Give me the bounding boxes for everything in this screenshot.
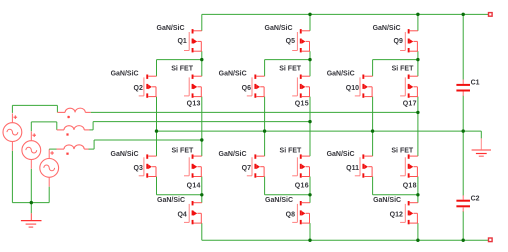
svg-text:GaN/SiC: GaN/SiC: [219, 151, 247, 158]
wire leg3 inner upper stub: [417, 60, 419, 77]
junction upper node: [416, 58, 419, 61]
transistor Q12: [400, 201, 418, 224]
transistor Q7: [247, 154, 265, 177]
wire leg3 top drop: [417, 14, 419, 30]
wire V1 up: [11, 105, 13, 113]
svg-text:Q6: Q6: [242, 85, 251, 92]
svg-text:Q12: Q12: [390, 212, 403, 219]
wire top DC+ bus: [202, 13, 488, 15]
wire L2 drop: [56, 122, 58, 130]
svg-text:Q11: Q11: [346, 165, 359, 172]
svg-text:Q2: Q2: [134, 85, 143, 92]
svg-text:Q18: Q18: [403, 182, 417, 189]
svg-text:Si FET: Si FET: [391, 147, 414, 154]
svg-text:Si FET: Si FET: [279, 65, 302, 72]
polarity dot mark L2: [66, 133, 68, 135]
junction midpoint tie: [371, 129, 374, 132]
ground (DC midpoint): [472, 138, 491, 156]
svg-text:GaN/SiC: GaN/SiC: [373, 25, 401, 32]
junction bottom bus: [416, 239, 419, 242]
transistor Q2: [139, 75, 157, 98]
junction top bus: [416, 13, 419, 16]
svg-text:GaN/SiC: GaN/SiC: [265, 197, 293, 204]
junction top bus: [462, 13, 465, 16]
node phase C: [200, 138, 203, 141]
junction lower node: [308, 193, 311, 196]
transistor Q6: [247, 75, 265, 98]
transistor Q9: [400, 29, 418, 52]
polarity dot mark L1: [67, 116, 69, 118]
wire phase B line: [93, 121, 310, 123]
polarity + mark V1: [14, 115, 18, 119]
transistor Q4: [184, 201, 202, 224]
ground (source neutral): [21, 213, 42, 227]
wire L3 out: [89, 148, 95, 150]
transistor Q18: [400, 154, 418, 177]
wire leg1 lower node branch: [157, 194, 202, 196]
svg-text:C1: C1: [471, 80, 480, 87]
svg-text:GaN/SiC: GaN/SiC: [327, 151, 355, 158]
wire leg1 upper node branch: [157, 59, 202, 61]
junction lower node: [416, 193, 419, 196]
wire leg2 top drop: [309, 14, 311, 30]
wire leg1 top drop: [201, 14, 203, 30]
wire V2 return: [30, 169, 32, 203]
junction lower node: [200, 193, 203, 196]
wire V1 return: [11, 151, 13, 203]
wire leg3 to bottom FET: [417, 195, 419, 203]
svg-text:Si FET: Si FET: [392, 65, 415, 72]
wire leg3 upper node stub: [417, 51, 419, 59]
svg-text:Q1: Q1: [177, 38, 186, 45]
junction midpoint tie: [155, 129, 158, 132]
svg-text:Q4: Q4: [177, 212, 186, 219]
inductor L1: [57, 108, 90, 112]
node phase A: [416, 111, 419, 114]
wire leg2 to bottom FET: [309, 195, 311, 203]
svg-text:Q13: Q13: [187, 100, 201, 107]
wire V1 to L1: [12, 104, 57, 106]
wire L2 out: [90, 129, 94, 131]
wire C2 to DC-: [462, 211, 464, 240]
wire leg2 upper node branch: [265, 59, 310, 61]
wire leg1 outer lower stub: [156, 177, 158, 195]
junction upper node: [308, 58, 311, 61]
svg-text:Q9: Q9: [394, 38, 403, 45]
wire leg2 outer mid column: [264, 97, 266, 157]
wire leg1 upper node stub: [201, 51, 203, 59]
junction bottom bus: [462, 239, 465, 242]
junction upper node: [200, 58, 203, 61]
svg-text:Si FET: Si FET: [172, 147, 195, 154]
wire leg3 upper node branch: [373, 59, 418, 61]
wire to ground: [480, 131, 482, 138]
polarity dot mark L3: [66, 153, 68, 155]
wire leg2 outer lower stub: [264, 177, 266, 195]
wire leg1 inner mid column: [201, 97, 203, 157]
wire leg1 bottom drop: [201, 223, 203, 240]
wire leg3 lower node branch: [373, 194, 418, 196]
wire leg3 outer lower stub: [372, 177, 374, 195]
wire leg2 bottom drop: [309, 223, 311, 240]
wire phase C riser: [93, 140, 95, 149]
svg-text:Q3: Q3: [134, 165, 143, 172]
wire leg1 outer mid column: [156, 97, 158, 157]
wire V2 to L2: [31, 121, 57, 123]
junction top bus: [308, 13, 311, 16]
transistor Q5: [292, 29, 310, 52]
wire phase A line: [91, 111, 418, 113]
transistor Q14: [184, 154, 202, 177]
capacitor C1: [456, 80, 470, 96]
wire leg1 to bottom FET: [201, 195, 203, 203]
wire leg1 outer upper stub: [156, 60, 158, 77]
junction midpoint tie: [263, 129, 266, 132]
wire V3 to L3: [49, 148, 56, 150]
wire leg1 inner upper stub: [201, 60, 203, 77]
svg-text:GaN/SiC: GaN/SiC: [157, 25, 185, 32]
port DC+ terminal: [489, 13, 493, 17]
svg-text:GaN/SiC: GaN/SiC: [157, 197, 185, 204]
voltage source V2: [22, 131, 41, 168]
node phase B: [308, 120, 311, 123]
junction bottom bus: [308, 239, 311, 242]
wire phase C line: [94, 139, 202, 141]
wire midpoint tie line: [157, 130, 482, 132]
polarity + mark V3: [50, 151, 54, 155]
wire rail to ground: [30, 203, 32, 214]
wire leg2 inner mid column: [309, 97, 311, 157]
svg-text:Q7: Q7: [242, 165, 251, 172]
svg-text:C2: C2: [471, 195, 480, 202]
wire leg2 inner lower stub: [309, 177, 311, 195]
wire leg3 outer mid column: [372, 97, 374, 157]
svg-text:Q14: Q14: [187, 182, 201, 189]
wire phase B riser: [92, 122, 94, 130]
transistor Q13: [184, 75, 202, 98]
transistor Q16: [292, 154, 310, 177]
svg-text:Q10: Q10: [346, 85, 359, 92]
transistor Q3: [139, 154, 157, 177]
svg-text:GaN/SiC: GaN/SiC: [327, 71, 355, 78]
wire leg3 outer upper stub: [372, 60, 374, 77]
port DC- terminal: [489, 238, 493, 242]
svg-text:Q15: Q15: [295, 100, 309, 107]
svg-text:Si FET: Si FET: [280, 147, 303, 154]
svg-text:GaN/SiC: GaN/SiC: [265, 25, 293, 32]
wire V2 up: [30, 122, 32, 131]
svg-text:GaN/SiC: GaN/SiC: [219, 71, 247, 78]
wire leg3 inner lower stub: [417, 177, 419, 195]
svg-text:GaN/SiC: GaN/SiC: [111, 71, 139, 78]
polarity + mark V2: [32, 133, 36, 137]
transistor Q1: [184, 29, 202, 52]
voltage source V3: [40, 149, 59, 186]
inductor L2: [57, 126, 90, 130]
wire leg2 upper node stub: [309, 51, 311, 59]
wire bottom DC- bus: [202, 239, 488, 241]
wire leg2 outer upper stub: [264, 60, 266, 77]
wire leg3 inner mid column: [417, 97, 419, 157]
wire L1 drop: [56, 105, 58, 112]
svg-text:Q8: Q8: [286, 212, 295, 219]
transistor Q10: [355, 75, 373, 98]
svg-text:Si FET: Si FET: [171, 65, 194, 72]
svg-text:Q5: Q5: [286, 38, 295, 45]
wire DC+ to C1: [462, 14, 464, 79]
junction source neutral: [30, 201, 33, 204]
wire leg2 inner upper stub: [309, 60, 311, 77]
wire V3 return: [48, 187, 50, 203]
transistor Q11: [355, 154, 373, 177]
svg-text:Q17: Q17: [403, 100, 417, 107]
wire source return rail: [12, 202, 49, 204]
svg-text:GaN/SiC: GaN/SiC: [111, 151, 139, 158]
wire leg3 bottom drop: [417, 223, 419, 240]
junction capacitor midpoint: [462, 129, 465, 132]
svg-text:Q16: Q16: [295, 182, 309, 189]
transistor Q15: [292, 75, 310, 98]
svg-text:GaN/SiC: GaN/SiC: [373, 197, 401, 204]
wire C1 to C2 midpoint: [462, 96, 464, 196]
inductor L3: [57, 145, 89, 149]
capacitor C2: [456, 195, 470, 211]
transistor Q17: [400, 75, 418, 98]
voltage source V1: [3, 113, 22, 150]
transistor Q8: [292, 201, 310, 224]
wire leg2 lower node branch: [265, 194, 310, 196]
wire leg1 inner lower stub: [201, 177, 203, 195]
